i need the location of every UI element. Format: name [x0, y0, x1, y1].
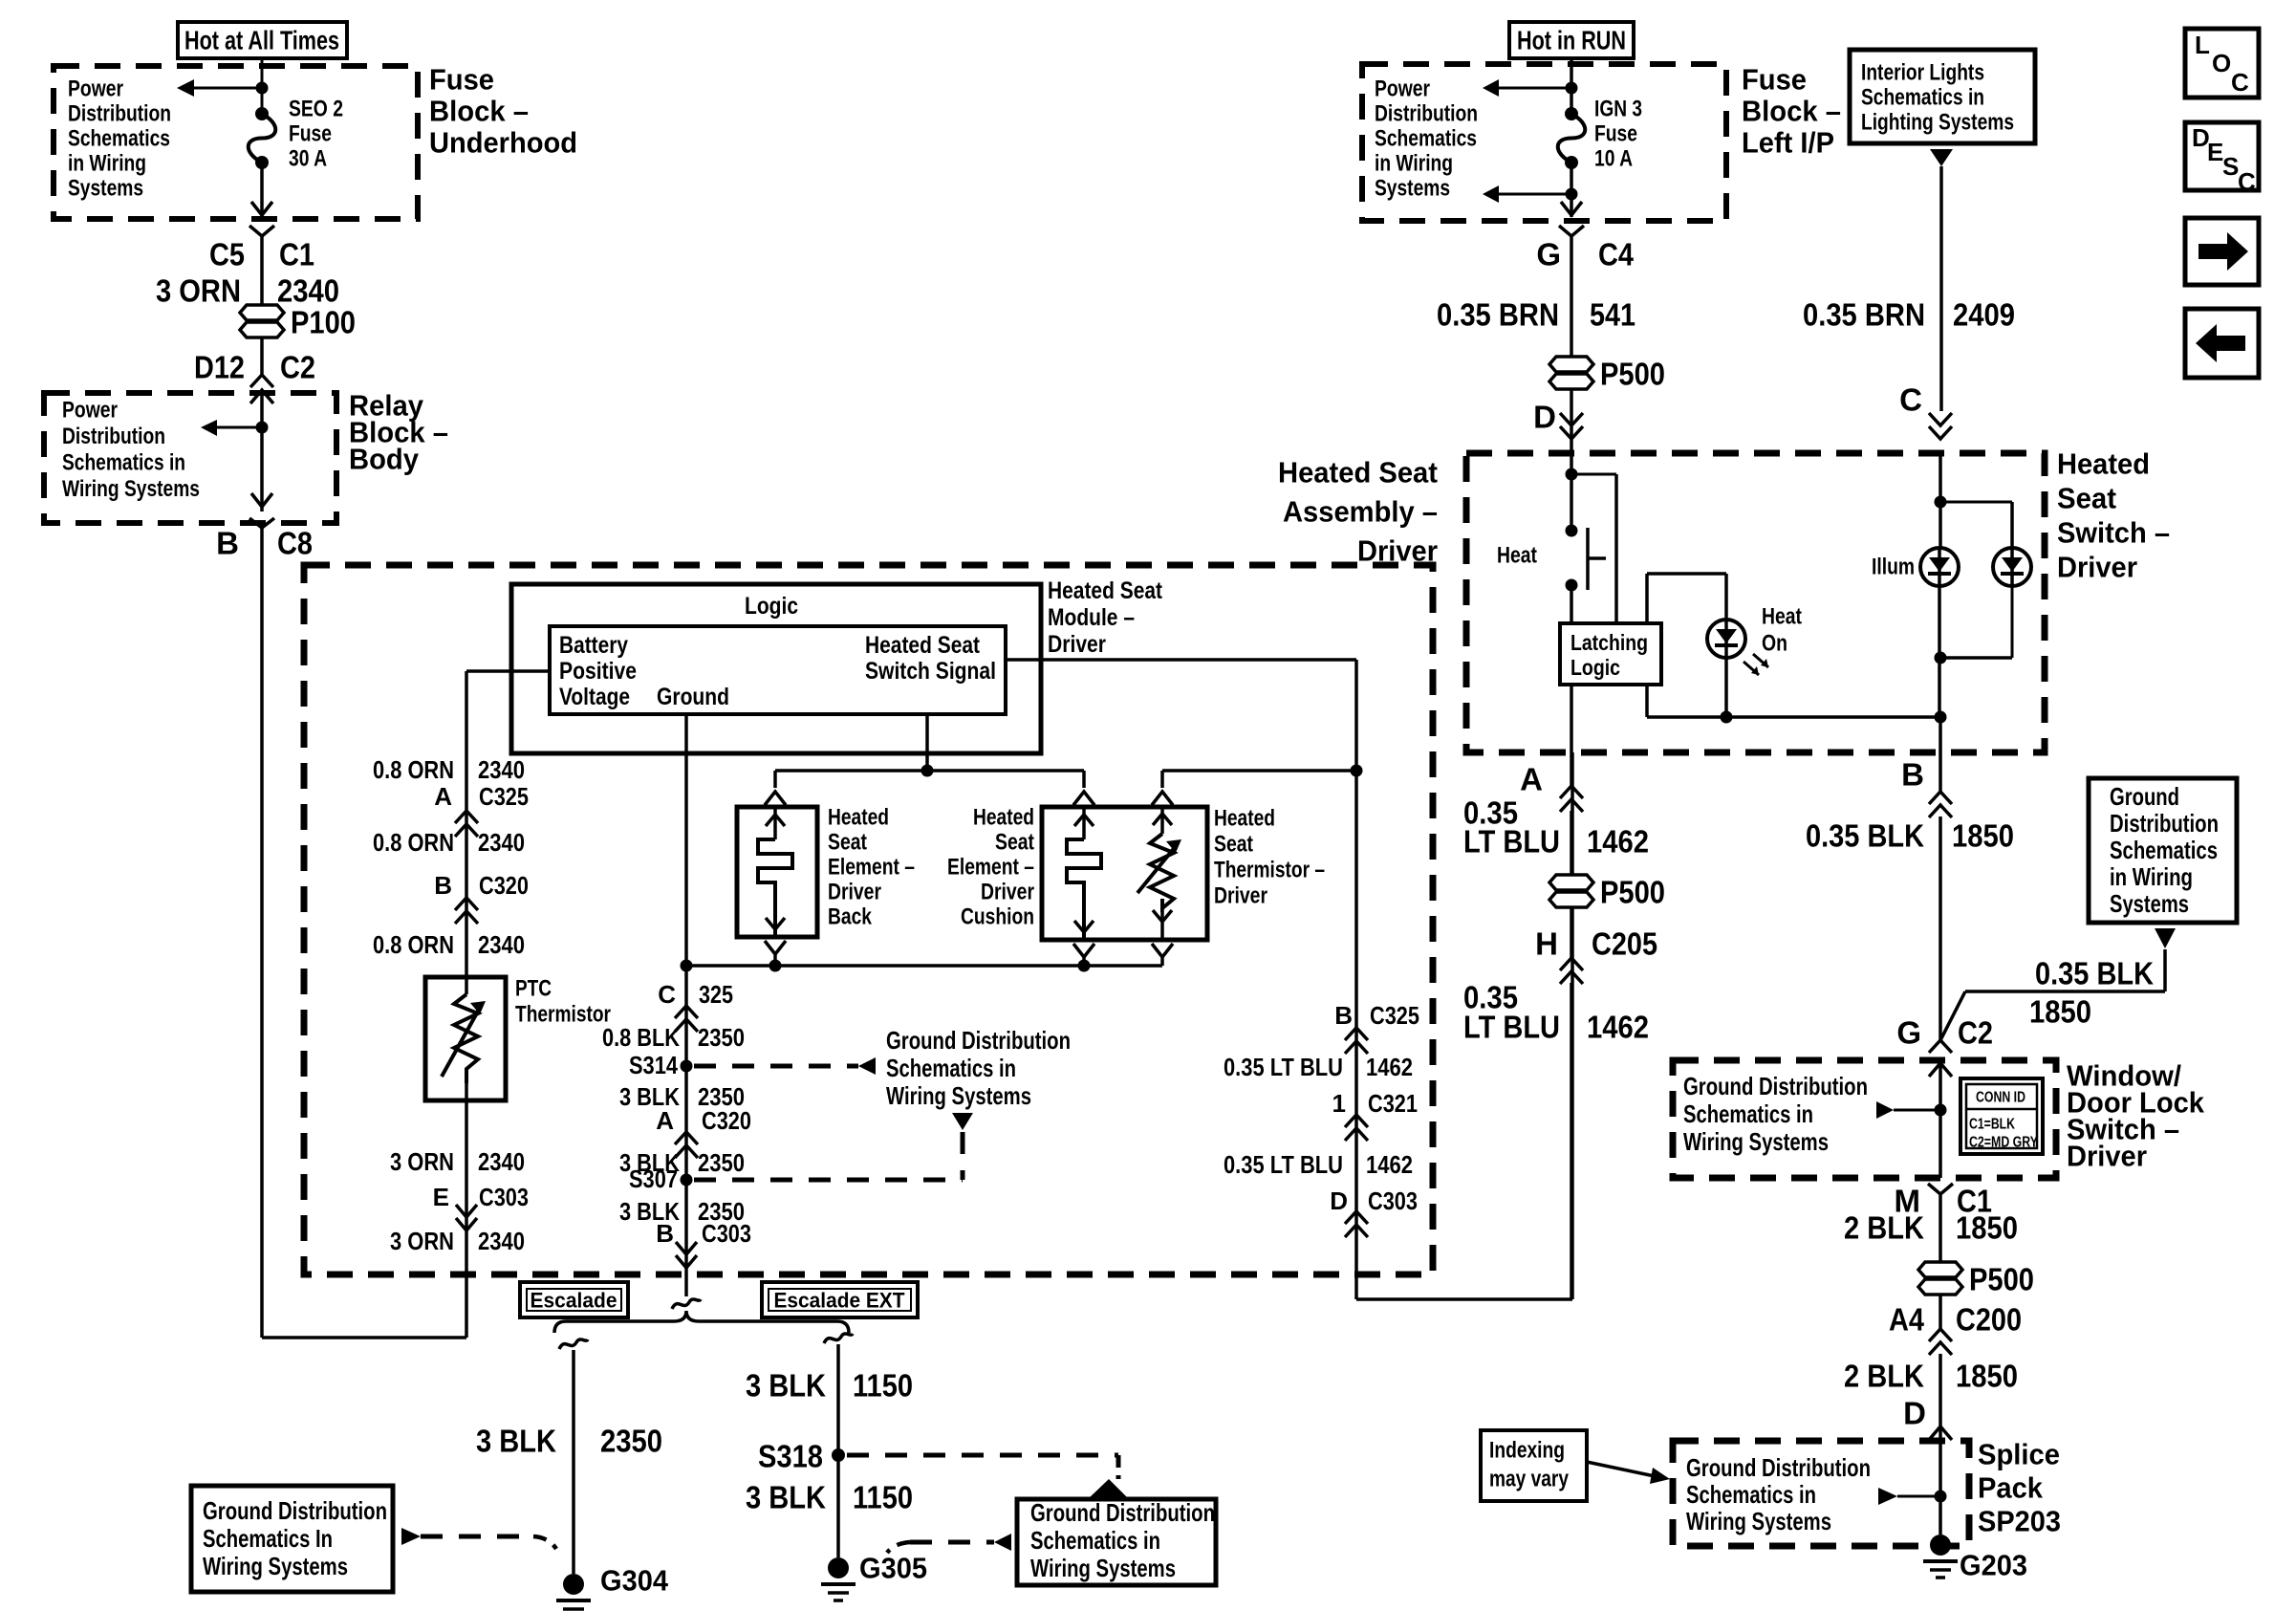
- svg-text:0.35 BLK: 0.35 BLK: [2035, 956, 2154, 991]
- svg-text:Schematics in: Schematics in: [62, 450, 185, 476]
- svg-text:D: D: [1903, 1396, 1926, 1431]
- svg-text:2409: 2409: [1953, 297, 2015, 333]
- svg-text:C325: C325: [479, 782, 529, 811]
- svg-text:0.35 BRN: 0.35 BRN: [1803, 297, 1925, 333]
- svg-text:C1=BLK: C1=BLK: [1969, 1117, 2015, 1133]
- svg-text:D: D: [1330, 1186, 1348, 1215]
- svg-text:Switch Signal: Switch Signal: [865, 658, 996, 685]
- svg-text:L: L: [2195, 31, 2210, 59]
- svg-text:P500: P500: [1600, 875, 1665, 910]
- svg-text:1850: 1850: [1956, 1359, 2018, 1394]
- svg-text:Heated: Heated: [828, 805, 889, 831]
- svg-text:Back: Back: [828, 904, 873, 930]
- svg-text:0.8 ORN: 0.8 ORN: [373, 828, 454, 857]
- svg-text:Illum: Illum: [1872, 555, 1915, 580]
- svg-text:2350: 2350: [698, 1148, 745, 1177]
- svg-text:S314: S314: [629, 1051, 678, 1079]
- svg-text:Block –: Block –: [429, 95, 529, 128]
- svg-text:2340: 2340: [478, 930, 525, 959]
- svg-text:C8: C8: [277, 526, 313, 561]
- svg-text:2340: 2340: [478, 755, 525, 784]
- svg-text:C320: C320: [702, 1106, 751, 1135]
- svg-text:Schematics In: Schematics In: [203, 1524, 333, 1553]
- svg-text:Schematics in: Schematics in: [1861, 85, 1984, 111]
- svg-text:Systems: Systems: [1375, 176, 1450, 202]
- svg-text:0.35 BRN: 0.35 BRN: [1437, 297, 1559, 333]
- svg-text:Fuse: Fuse: [429, 63, 494, 97]
- svg-text:Schematics: Schematics: [1375, 126, 1477, 152]
- svg-text:in Wiring: in Wiring: [2110, 862, 2193, 891]
- svg-text:Wiring Systems: Wiring Systems: [1030, 1554, 1176, 1582]
- svg-text:C303: C303: [479, 1183, 529, 1211]
- svg-text:Seat: Seat: [828, 830, 867, 856]
- svg-text:Driver: Driver: [2057, 551, 2137, 584]
- svg-text:0.8 BLK: 0.8 BLK: [602, 1023, 680, 1052]
- svg-text:Lighting Systems: Lighting Systems: [1861, 110, 2014, 136]
- svg-text:3 BLK: 3 BLK: [476, 1424, 556, 1459]
- svg-text:Wiring Systems: Wiring Systems: [62, 476, 200, 502]
- svg-text:On: On: [1762, 631, 1787, 657]
- svg-text:Power: Power: [62, 398, 118, 424]
- svg-text:LT BLU: LT BLU: [1463, 1010, 1560, 1045]
- svg-text:Wiring Systems: Wiring Systems: [203, 1552, 348, 1580]
- svg-text:C: C: [1899, 382, 1922, 418]
- svg-text:C325: C325: [1370, 1001, 1419, 1030]
- svg-text:Heated Seat: Heated Seat: [1048, 577, 1163, 604]
- svg-text:Distribution: Distribution: [2110, 809, 2219, 838]
- svg-text:A: A: [656, 1106, 674, 1135]
- svg-text:Seat: Seat: [1214, 832, 1253, 858]
- svg-text:3 ORN: 3 ORN: [390, 1147, 454, 1176]
- svg-text:G203: G203: [1960, 1549, 2027, 1582]
- svg-text:C4: C4: [1598, 237, 1635, 272]
- svg-text:Heated: Heated: [1214, 806, 1275, 832]
- svg-text:Driver: Driver: [981, 880, 1034, 905]
- svg-text:2 BLK: 2 BLK: [1844, 1359, 1924, 1394]
- svg-text:C: C: [658, 980, 676, 1009]
- svg-text:Distribution: Distribution: [1375, 101, 1478, 127]
- svg-text:Schematics: Schematics: [68, 126, 170, 152]
- svg-text:Ground Distribution: Ground Distribution: [1686, 1453, 1871, 1482]
- svg-text:C2: C2: [280, 350, 315, 385]
- svg-text:Interior Lights: Interior Lights: [1861, 60, 1984, 86]
- svg-text:Distribution: Distribution: [62, 424, 165, 449]
- svg-text:Module –: Module –: [1048, 604, 1135, 631]
- svg-text:Fuse: Fuse: [1594, 121, 1637, 147]
- svg-text:Driver: Driver: [828, 880, 881, 905]
- svg-text:P500: P500: [1969, 1262, 2034, 1297]
- svg-text:Wiring Systems: Wiring Systems: [886, 1081, 1031, 1110]
- svg-text:C320: C320: [479, 871, 529, 900]
- svg-text:Cushion: Cushion: [961, 904, 1034, 930]
- svg-text:G305: G305: [859, 1552, 927, 1585]
- svg-text:C205: C205: [1592, 926, 1657, 962]
- svg-text:3 BLK: 3 BLK: [746, 1480, 826, 1515]
- svg-text:Driver: Driver: [1357, 534, 1438, 568]
- svg-text:Ground Distribution: Ground Distribution: [203, 1496, 387, 1525]
- svg-text:C2=MD GRY: C2=MD GRY: [1969, 1135, 2038, 1151]
- svg-text:G304: G304: [600, 1564, 669, 1598]
- svg-text:C321: C321: [1368, 1089, 1418, 1118]
- svg-text:Ground: Ground: [657, 684, 729, 710]
- svg-text:Driver: Driver: [1214, 883, 1267, 909]
- svg-text:Voltage: Voltage: [559, 684, 630, 710]
- svg-text:C: C: [2238, 167, 2256, 196]
- svg-text:Heat: Heat: [1762, 604, 1802, 630]
- svg-text:0.8 ORN: 0.8 ORN: [373, 930, 454, 959]
- svg-text:CONN ID: CONN ID: [1976, 1090, 2025, 1106]
- svg-text:Power: Power: [1375, 76, 1430, 102]
- svg-text:Logic: Logic: [745, 593, 798, 620]
- svg-text:Ground Distribution: Ground Distribution: [1030, 1498, 1215, 1527]
- svg-text:S307: S307: [629, 1165, 678, 1193]
- svg-text:Systems: Systems: [68, 176, 143, 202]
- svg-text:D: D: [1533, 400, 1556, 435]
- svg-text:S318: S318: [758, 1439, 823, 1474]
- svg-text:A4: A4: [1889, 1302, 1925, 1338]
- svg-text:1462: 1462: [1366, 1053, 1413, 1081]
- svg-text:0.35 LT BLU: 0.35 LT BLU: [1224, 1150, 1343, 1179]
- svg-text:1462: 1462: [1366, 1150, 1413, 1179]
- svg-text:3 ORN: 3 ORN: [156, 273, 241, 309]
- svg-text:Power: Power: [68, 76, 123, 102]
- svg-text:Heated Seat: Heated Seat: [865, 632, 981, 659]
- svg-text:B: B: [656, 1219, 674, 1248]
- svg-text:30 A: 30 A: [289, 146, 327, 172]
- svg-text:Escalade EXT: Escalade EXT: [774, 1289, 906, 1313]
- svg-text:B: B: [216, 526, 239, 561]
- svg-text:D12: D12: [194, 350, 245, 385]
- svg-text:SP203: SP203: [1978, 1505, 2061, 1538]
- svg-text:PTC: PTC: [515, 976, 552, 1002]
- svg-text:Switch –: Switch –: [2057, 516, 2170, 550]
- svg-text:2350: 2350: [698, 1023, 745, 1052]
- svg-text:325: 325: [699, 980, 733, 1009]
- svg-text:B: B: [1901, 757, 1924, 793]
- svg-text:541: 541: [1590, 297, 1635, 333]
- svg-text:Seat: Seat: [995, 830, 1034, 856]
- svg-text:0.35 BLK: 0.35 BLK: [1806, 818, 1924, 854]
- svg-text:in Wiring: in Wiring: [68, 151, 146, 177]
- svg-text:Element –: Element –: [828, 855, 915, 881]
- svg-text:Ground Distribution: Ground Distribution: [886, 1026, 1071, 1055]
- svg-text:LT BLU: LT BLU: [1463, 824, 1560, 860]
- svg-text:E: E: [2207, 138, 2223, 166]
- svg-text:Thermistor –: Thermistor –: [1214, 858, 1325, 883]
- svg-text:Body: Body: [349, 443, 420, 476]
- svg-text:1462: 1462: [1587, 824, 1649, 860]
- svg-text:1462: 1462: [1587, 1010, 1649, 1045]
- svg-text:Schematics: Schematics: [2110, 836, 2218, 864]
- svg-text:Ground: Ground: [2110, 782, 2179, 811]
- svg-text:Seat: Seat: [2057, 482, 2116, 515]
- svg-text:C303: C303: [1368, 1186, 1418, 1215]
- svg-text:G: G: [1896, 1015, 1921, 1051]
- svg-text:1850: 1850: [2029, 994, 2091, 1030]
- svg-text:G: G: [1536, 237, 1561, 272]
- svg-text:10 A: 10 A: [1594, 146, 1633, 172]
- svg-text:Positive: Positive: [559, 658, 637, 685]
- svg-text:Heated Seat: Heated Seat: [1278, 456, 1438, 490]
- svg-text:0.8 ORN: 0.8 ORN: [373, 755, 454, 784]
- svg-text:Escalade: Escalade: [531, 1289, 617, 1313]
- svg-text:Fuse: Fuse: [289, 121, 332, 147]
- svg-text:E: E: [433, 1183, 449, 1211]
- svg-text:B: B: [434, 871, 452, 900]
- svg-text:1: 1: [1332, 1089, 1346, 1118]
- svg-text:Left I/P: Left I/P: [1742, 126, 1834, 160]
- svg-text:Hot in RUN: Hot in RUN: [1517, 26, 1626, 55]
- svg-text:IGN 3: IGN 3: [1594, 97, 1642, 122]
- svg-text:2340: 2340: [478, 1147, 525, 1176]
- svg-text:Wiring Systems: Wiring Systems: [1686, 1507, 1831, 1535]
- svg-text:2 BLK: 2 BLK: [1844, 1210, 1924, 1246]
- svg-text:Assembly –: Assembly –: [1283, 495, 1438, 529]
- svg-text:B: B: [1334, 1001, 1353, 1030]
- svg-text:Wiring Systems: Wiring Systems: [1683, 1127, 1829, 1156]
- svg-text:3 ORN: 3 ORN: [390, 1227, 454, 1255]
- svg-text:C: C: [2231, 68, 2249, 97]
- svg-text:Thermistor: Thermistor: [515, 1002, 611, 1028]
- svg-text:2340: 2340: [277, 273, 339, 309]
- svg-text:2350: 2350: [600, 1424, 662, 1459]
- svg-text:P100: P100: [291, 305, 356, 340]
- svg-text:C303: C303: [702, 1219, 751, 1248]
- svg-text:H: H: [1535, 926, 1558, 962]
- svg-text:2340: 2340: [478, 828, 525, 857]
- svg-text:Underhood: Underhood: [429, 126, 577, 160]
- svg-text:C1: C1: [279, 237, 314, 272]
- svg-text:2340: 2340: [478, 1227, 525, 1255]
- svg-text:1150: 1150: [853, 1480, 913, 1515]
- svg-text:Schematics in: Schematics in: [1686, 1480, 1816, 1509]
- svg-text:Systems: Systems: [2110, 889, 2189, 918]
- svg-text:Element –: Element –: [947, 855, 1034, 881]
- svg-text:Battery: Battery: [559, 632, 628, 659]
- svg-text:Distribution: Distribution: [68, 101, 171, 127]
- svg-text:Schematics in: Schematics in: [1683, 1099, 1813, 1128]
- svg-text:Indexing: Indexing: [1489, 1438, 1565, 1464]
- svg-text:SEO 2: SEO 2: [289, 97, 343, 122]
- svg-text:1850: 1850: [1956, 1210, 2018, 1246]
- svg-text:A: A: [1520, 762, 1543, 797]
- svg-text:A: A: [434, 782, 452, 811]
- svg-text:O: O: [2212, 49, 2231, 77]
- svg-text:Hot at All Times: Hot at All Times: [184, 26, 339, 55]
- svg-text:P500: P500: [1600, 357, 1665, 392]
- svg-text:Latching: Latching: [1570, 630, 1648, 655]
- svg-text:Heated: Heated: [2057, 447, 2150, 481]
- svg-text:Schematics in: Schematics in: [886, 1054, 1016, 1082]
- svg-text:1850: 1850: [1952, 818, 2014, 854]
- svg-text:C5: C5: [209, 237, 245, 272]
- svg-text:Block –: Block –: [1742, 95, 1841, 128]
- svg-text:may vary: may vary: [1489, 1467, 1570, 1492]
- svg-text:Heated: Heated: [973, 805, 1034, 831]
- svg-text:S: S: [2222, 152, 2239, 181]
- svg-text:1150: 1150: [853, 1368, 913, 1404]
- svg-text:Logic: Logic: [1570, 655, 1620, 680]
- svg-text:Heat: Heat: [1497, 543, 1537, 569]
- svg-text:Pack: Pack: [1978, 1471, 2044, 1505]
- svg-text:Splice: Splice: [1978, 1438, 2060, 1471]
- svg-text:3 BLK: 3 BLK: [746, 1368, 826, 1404]
- svg-text:in Wiring: in Wiring: [1375, 151, 1453, 177]
- svg-text:Schematics in: Schematics in: [1030, 1526, 1160, 1555]
- svg-text:Ground Distribution: Ground Distribution: [1683, 1072, 1868, 1100]
- svg-text:Fuse: Fuse: [1742, 63, 1807, 97]
- svg-text:C2: C2: [1958, 1015, 1993, 1051]
- svg-text:Driver: Driver: [2067, 1140, 2147, 1173]
- svg-text:0.35 LT BLU: 0.35 LT BLU: [1224, 1053, 1343, 1081]
- svg-text:Driver: Driver: [1048, 631, 1106, 658]
- svg-text:C200: C200: [1956, 1302, 2022, 1338]
